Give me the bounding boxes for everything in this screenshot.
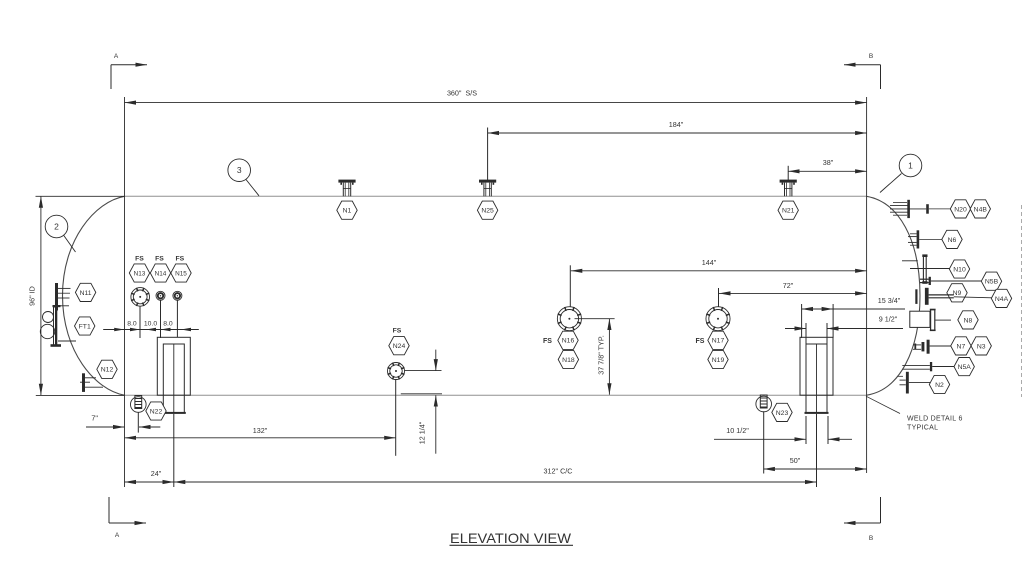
dimension 12 1/4in <box>435 350 437 371</box>
nozzle N20/N4B <box>890 200 950 218</box>
svg-text:38": 38" <box>823 158 834 167</box>
title ELEVATION VIEW <box>450 530 574 546</box>
right tangent line <box>866 97 868 473</box>
svg-text:N2: N2 <box>935 382 944 389</box>
nozzle N5A <box>902 362 955 371</box>
svg-text:ELEVATION VIEW: ELEVATION VIEW <box>450 530 572 546</box>
saddle support left <box>157 337 190 414</box>
nozzle N7/N3 <box>913 340 952 354</box>
extension N14 <box>160 300 162 338</box>
section marker A top <box>111 53 147 89</box>
extension line N16 <box>569 265 571 318</box>
svg-text:2: 2 <box>54 222 59 232</box>
nozzle N8 <box>910 309 951 331</box>
level device FT1 <box>40 307 76 347</box>
extension left <box>805 323 807 344</box>
dimension 37 7/8 TYP <box>608 319 610 395</box>
right head <box>867 196 920 395</box>
nozzle N2 <box>898 372 931 394</box>
svg-text:N10: N10 <box>953 266 966 273</box>
svg-text:144": 144" <box>702 258 717 267</box>
dimension 360in S/S <box>125 102 867 104</box>
svg-text:132": 132" <box>253 426 268 435</box>
section marker B bottom <box>844 497 881 542</box>
svg-text:N17: N17 <box>712 338 725 345</box>
N16 connector line <box>575 318 615 320</box>
svg-text:N13: N13 <box>134 270 146 277</box>
FS labels N13 N14 N15 <box>135 256 184 263</box>
svg-text:FT1: FT1 <box>79 323 91 330</box>
dimension 132in <box>125 437 396 439</box>
svg-text:A: A <box>115 532 120 539</box>
svg-text:50": 50" <box>790 456 801 465</box>
N22 centerline extension <box>137 412 139 432</box>
svg-text:10.0: 10.0 <box>144 321 157 328</box>
svg-text:N14: N14 <box>155 270 167 277</box>
svg-text:N6: N6 <box>948 237 957 244</box>
nozzle N14 (end view) <box>156 291 165 300</box>
svg-text:12 1/4": 12 1/4" <box>418 421 427 444</box>
N24 centerline extension <box>395 379 397 455</box>
svg-text:N5B: N5B <box>985 279 999 286</box>
svg-text:B: B <box>869 53 873 60</box>
N24 connector to dim <box>404 370 441 372</box>
left saddle centerline extension <box>173 414 175 487</box>
nozzle callout N18 <box>558 350 578 368</box>
extension line N21 <box>787 166 789 180</box>
extension left <box>805 416 807 444</box>
svg-text:FS: FS <box>393 328 402 335</box>
dimension 184in <box>488 132 867 134</box>
svg-text:9 1/2": 9 1/2" <box>879 315 898 324</box>
nozzle N10 <box>902 254 950 283</box>
bottom reference segment <box>401 393 442 395</box>
svg-text:N9: N9 <box>953 290 962 297</box>
svg-text:N20: N20 <box>954 206 967 213</box>
svg-text:N24: N24 <box>393 343 406 350</box>
svg-text:N1: N1 <box>343 208 352 215</box>
svg-text:8.0: 8.0 <box>163 321 173 328</box>
nozzle N12 <box>80 373 103 392</box>
svg-text:N18: N18 <box>562 357 575 364</box>
dimension 96in ID <box>40 196 42 395</box>
extension N13 <box>139 306 141 338</box>
svg-text:360" S/S: 360" S/S <box>447 89 477 98</box>
dimension 96in ID extension lines <box>36 195 125 197</box>
extension line N17 <box>718 288 720 318</box>
svg-text:N15: N15 <box>175 270 187 277</box>
extension N15 <box>176 300 178 337</box>
dimension 50in <box>763 468 866 470</box>
svg-text:FS: FS <box>155 256 164 263</box>
dimension 144in <box>571 270 867 272</box>
svg-text:N8: N8 <box>964 317 973 324</box>
svg-text:N19: N19 <box>712 357 725 364</box>
svg-text:N7: N7 <box>957 343 966 350</box>
nozzle callout N12 <box>97 360 117 378</box>
nozzle N21 <box>780 180 797 197</box>
svg-text:N4A: N4A <box>995 296 1009 303</box>
svg-text:N16: N16 <box>562 338 575 345</box>
svg-text:312" C/C: 312" C/C <box>544 467 573 476</box>
svg-text:B: B <box>869 535 873 542</box>
svg-text:TYPICAL: TYPICAL <box>907 425 938 432</box>
svg-text:184": 184" <box>669 120 684 129</box>
dimension 312in C/C <box>174 481 817 483</box>
drawing frame edge (cropped) <box>1021 205 1023 397</box>
svg-text:10 1/2": 10 1/2" <box>726 426 749 435</box>
svg-text:1: 1 <box>908 161 913 171</box>
extension right <box>827 416 829 444</box>
svg-text:N12: N12 <box>101 367 114 374</box>
nozzle N22 (bottom, end view) <box>131 396 147 413</box>
section marker A bottom <box>109 497 146 539</box>
nozzle callout N11 <box>75 283 95 301</box>
nozzle callout N13 <box>129 264 149 282</box>
dimension 38in <box>788 170 866 172</box>
nozzle callout FT1 <box>75 317 95 335</box>
vessel shell bottom line <box>125 394 867 396</box>
balloon 2 <box>45 215 75 252</box>
left tangent line <box>124 97 126 487</box>
nozzle N25 <box>479 180 496 197</box>
svg-text:24": 24" <box>151 469 162 478</box>
svg-text:N22: N22 <box>150 408 163 415</box>
nozzle N5B <box>920 277 982 285</box>
svg-text:N23: N23 <box>776 410 789 417</box>
svg-text:FS: FS <box>175 256 184 263</box>
vessel shell top line <box>125 195 867 197</box>
section marker B top <box>844 53 881 89</box>
extension left <box>801 304 803 338</box>
svg-text:WELD DETAIL 6: WELD DETAIL 6 <box>907 416 963 423</box>
svg-text:N4B: N4B <box>974 206 988 213</box>
svg-text:FS: FS <box>543 338 552 345</box>
svg-text:FS: FS <box>696 338 705 345</box>
left head <box>63 196 125 395</box>
nozzle N13 (end view) <box>131 288 150 307</box>
extension right <box>832 304 834 338</box>
svg-text:7": 7" <box>91 414 98 423</box>
svg-text:15 3/4": 15 3/4" <box>878 296 901 305</box>
right saddle centerline extension <box>816 414 818 487</box>
nozzle N6 <box>908 230 943 248</box>
svg-text:FS: FS <box>135 256 144 263</box>
dimension 72in <box>719 292 867 294</box>
extension line N25 <box>487 128 489 181</box>
svg-text:3: 3 <box>237 165 242 175</box>
dimension 24in <box>125 481 175 483</box>
svg-text:96" ID: 96" ID <box>28 286 37 306</box>
N23 centerline extension <box>763 411 765 473</box>
nozzle N17 (flush, end view) <box>706 307 730 331</box>
svg-text:N11: N11 <box>80 290 92 297</box>
balloon 3 <box>228 159 259 196</box>
nozzle N1 <box>338 180 355 197</box>
svg-text:72": 72" <box>783 281 794 290</box>
svg-text:N21: N21 <box>782 208 795 215</box>
nozzle N16 (flush, end view) <box>557 307 581 331</box>
nozzle N23 (bottom, end view) <box>756 395 772 412</box>
svg-text:A: A <box>114 53 119 60</box>
extension right <box>826 323 828 344</box>
weld detail note <box>866 396 963 431</box>
saddle support right <box>800 337 833 414</box>
nozzle callout N14 <box>150 264 170 282</box>
dimension 7in <box>86 426 125 428</box>
svg-text:8.0: 8.0 <box>127 321 137 328</box>
svg-text:N5A: N5A <box>958 364 972 371</box>
nozzle N15 (end view) <box>173 291 182 300</box>
nozzle callout N15 <box>171 264 191 282</box>
balloon 1 <box>880 154 922 192</box>
svg-text:N3: N3 <box>977 343 986 350</box>
svg-text:37 7/8" TYP.: 37 7/8" TYP. <box>597 335 606 374</box>
nozzle callout N19 <box>708 350 728 368</box>
nozzle N9/N4A <box>947 284 967 302</box>
svg-text:N25: N25 <box>481 208 494 215</box>
nozzle N11 with standpipe <box>53 283 71 311</box>
